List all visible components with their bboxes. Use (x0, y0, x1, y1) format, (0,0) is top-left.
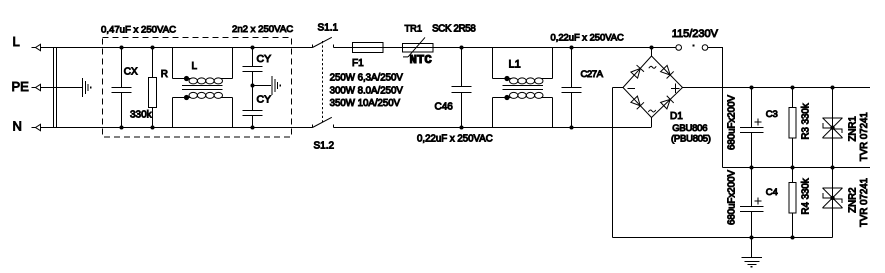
svg-text:F1: F1 (352, 58, 364, 69)
svg-text:L: L (13, 34, 20, 49)
svg-text:350W 10A/250V: 350W 10A/250V (330, 98, 401, 109)
svg-text:R4 330k: R4 330k (801, 178, 812, 214)
svg-text:C27A: C27A (581, 69, 604, 80)
svg-text:330k: 330k (130, 110, 153, 121)
svg-text:D1: D1 (670, 111, 683, 122)
svg-text:GBU806: GBU806 (672, 123, 707, 134)
svg-text:S1.1: S1.1 (318, 23, 339, 34)
svg-text:L1: L1 (509, 59, 521, 71)
svg-text:ZNR1: ZNR1 (848, 116, 859, 141)
svg-text:CY: CY (257, 94, 272, 106)
svg-text:N: N (13, 119, 22, 134)
svg-text:TR1: TR1 (405, 23, 423, 33)
svg-text:ZNR2: ZNR2 (848, 187, 859, 212)
svg-text:300W 8.0A/250V: 300W 8.0A/250V (330, 85, 404, 96)
svg-text:C46: C46 (435, 102, 454, 113)
svg-text:S1.2: S1.2 (314, 141, 335, 152)
svg-text:CX: CX (124, 67, 138, 78)
svg-text:C4: C4 (766, 187, 778, 198)
svg-text:(PBU805): (PBU805) (671, 134, 711, 145)
svg-text:SCK 2R58: SCK 2R58 (432, 23, 475, 34)
svg-text:0,22uF x 250VAC: 0,22uF x 250VAC (417, 134, 493, 145)
svg-text:0,22uF x 250VAC: 0,22uF x 250VAC (551, 32, 625, 43)
svg-text:L: L (192, 61, 198, 72)
svg-text:250W 6,3A/250V: 250W 6,3A/250V (330, 73, 404, 84)
svg-text:PE: PE (12, 79, 30, 94)
svg-text:R3 330k: R3 330k (801, 103, 812, 139)
svg-text:2n2 x 250VAC: 2n2 x 250VAC (232, 24, 293, 35)
svg-text:680uFx200V: 680uFx200V (727, 95, 738, 150)
svg-text:R: R (161, 69, 168, 80)
svg-text:NTC: NTC (410, 53, 433, 67)
svg-text:115/230V: 115/230V (672, 28, 719, 40)
svg-text:CY: CY (257, 53, 272, 65)
svg-text:TVR 07241: TVR 07241 (859, 178, 870, 227)
svg-text:TVR 07241: TVR 07241 (859, 112, 870, 161)
svg-text:0,47uF x 250VAC: 0,47uF x 250VAC (101, 24, 176, 35)
svg-text:C3: C3 (766, 109, 778, 120)
svg-text:680uFx200V: 680uFx200V (727, 170, 738, 225)
